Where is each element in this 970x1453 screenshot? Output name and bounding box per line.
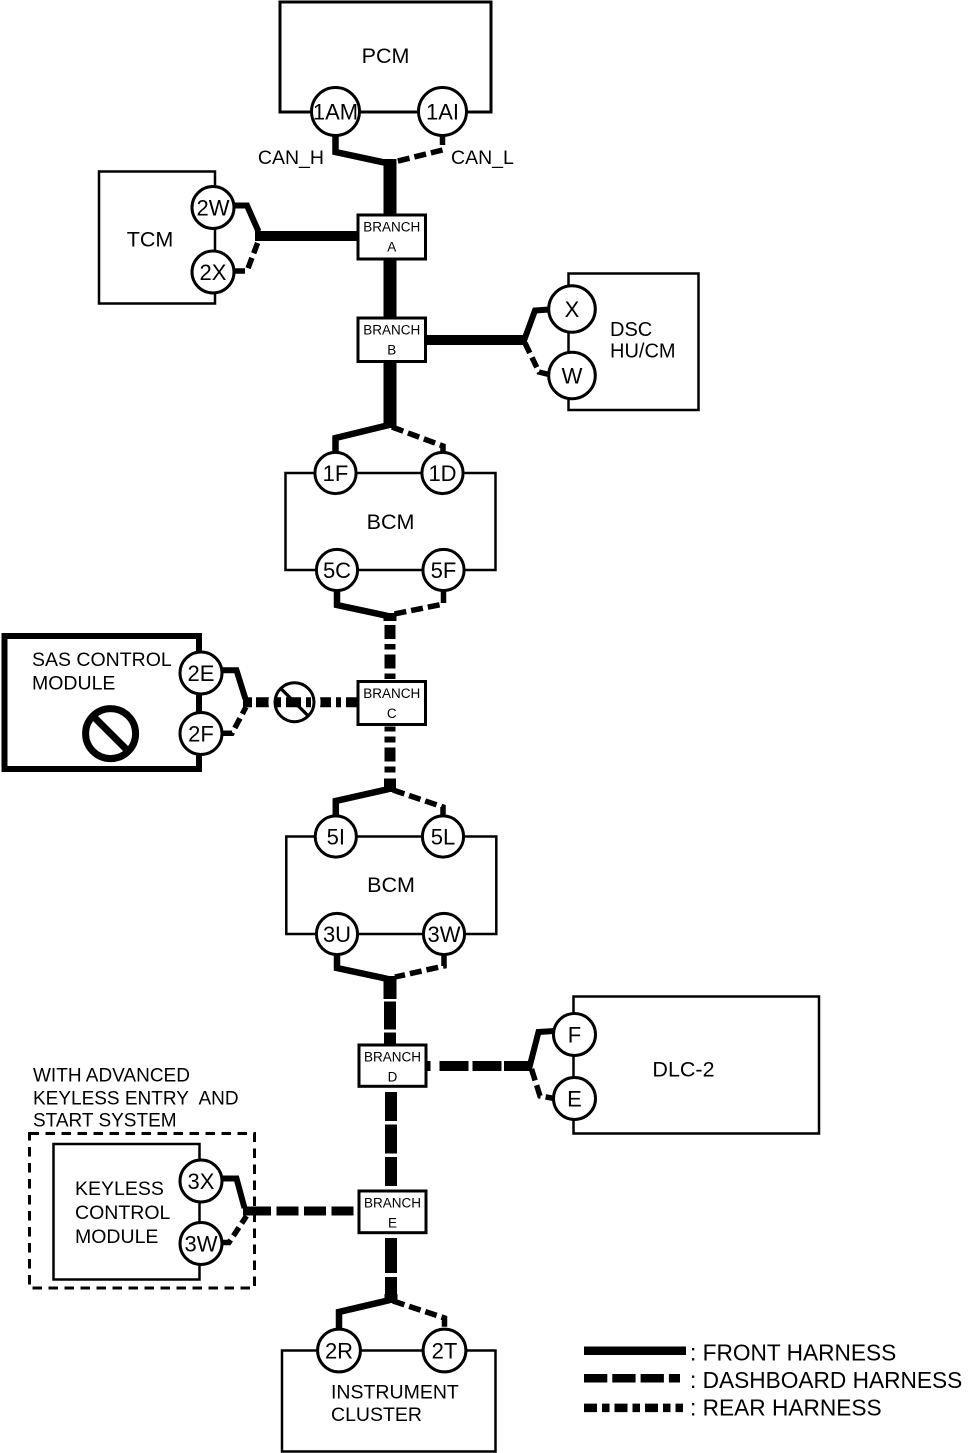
legend rear harness sample <box>584 1404 683 1413</box>
module DSC HU/CM <box>569 274 699 411</box>
wire dashed from 2X to junction <box>234 241 259 272</box>
wire trunk dashboard harness BRANCH D to BRANCH E <box>385 1092 397 1191</box>
module INSTRUMENT CLUSTER <box>282 1351 496 1452</box>
svg-text:MODULE: MODULE <box>32 673 115 695</box>
junction box BRANCH B <box>358 318 426 362</box>
wire trunk front harness PCM junction to BRANCH A <box>384 159 397 217</box>
wire dashed from 3W to trunk junction <box>395 955 444 977</box>
wire dashboard harness run keyless junction to BRANCH E <box>243 1207 249 1216</box>
svg-text:KEYLESS: KEYLESS <box>75 1178 164 1200</box>
wire from 2W to junction <box>234 206 259 232</box>
svg-text:3U: 3U <box>323 922 351 947</box>
wire CAN_H from 1AM to trunk <box>336 133 390 164</box>
dashed option box <box>30 1134 255 1289</box>
module TCM <box>99 172 215 304</box>
svg-text:BRANCH: BRANCH <box>363 323 420 338</box>
prohibition symbol in SAS module <box>86 709 136 759</box>
wire front harness TCM run to BRANCH A <box>255 231 359 241</box>
connector 2R <box>318 1329 361 1372</box>
svg-text:DLC-2: DLC-2 <box>652 1058 714 1082</box>
wire trunk dashboard harness junction to BRANCH D <box>384 976 397 999</box>
svg-text:X: X <box>565 297 580 322</box>
wire front harness BRANCH B run to DSC <box>426 335 528 345</box>
connector 2E <box>180 652 222 694</box>
svg-text:2X: 2X <box>200 260 227 285</box>
svg-text:3W: 3W <box>428 922 461 947</box>
wire from junction to F <box>529 1031 555 1069</box>
wire from 3U to trunk junction <box>337 955 388 979</box>
wire from junction to X <box>524 310 550 343</box>
wire trunk rear harness junction to BRANCH C <box>384 613 397 621</box>
svg-text:BCM: BCM <box>367 873 415 897</box>
svg-text:: FRONT HARNESS: : FRONT HARNESS <box>690 1340 896 1366</box>
wire dashed from junction to E <box>532 1069 555 1099</box>
svg-text:5C: 5C <box>323 558 351 583</box>
svg-text:1D: 1D <box>428 461 456 486</box>
connector 2W <box>192 187 234 229</box>
svg-text:E: E <box>567 1087 582 1112</box>
wire rear harness run SAS junction to BRANCH C <box>243 697 252 707</box>
wire dashed from junction to W <box>525 343 549 375</box>
svg-text:2T: 2T <box>432 1339 458 1364</box>
connector 5I <box>315 816 356 857</box>
wire from 2E to junction <box>222 670 246 699</box>
module BCM upper <box>286 473 496 570</box>
legend dashboard harness sample <box>584 1374 680 1383</box>
junction box BRANCH D <box>359 1045 426 1086</box>
svg-text:3X: 3X <box>188 1169 215 1194</box>
svg-text:: REAR HARNESS: : REAR HARNESS <box>690 1395 882 1421</box>
svg-text:TCM: TCM <box>127 228 174 252</box>
svg-text:INSTRUMENT: INSTRUMENT <box>331 1382 459 1404</box>
wire trunk dashboard harness BRANCH E to cluster junction <box>385 1238 397 1296</box>
module PCM <box>280 2 491 112</box>
legend front harness sample <box>584 1347 686 1356</box>
svg-text:3W: 3W <box>185 1232 218 1257</box>
wire trunk front harness BRANCH B to BCM junction <box>384 361 397 428</box>
svg-text:CAN_L: CAN_L <box>451 147 514 169</box>
junction box BRANCH C <box>358 682 426 725</box>
svg-text:1AM: 1AM <box>313 100 358 125</box>
connector X <box>549 286 596 333</box>
svg-text:F: F <box>568 1023 581 1048</box>
svg-text:W: W <box>562 364 583 389</box>
wire trunk rear harness BRANCH C to BCM junction <box>385 727 396 778</box>
wire from trunk junction to 5I <box>336 789 389 817</box>
svg-text:C: C <box>387 706 397 721</box>
svg-text:DSC: DSC <box>610 319 652 341</box>
wire dashed from trunk junction to 1D <box>392 427 443 454</box>
wire dashed from 5F to trunk junction <box>394 591 444 614</box>
svg-text:2R: 2R <box>325 1339 353 1364</box>
svg-text:SAS CONTROL: SAS CONTROL <box>32 649 172 671</box>
connector E <box>554 1078 596 1120</box>
svg-text:MODULE: MODULE <box>75 1226 158 1248</box>
wire from 3X to junction <box>222 1179 245 1209</box>
svg-text:1AI: 1AI <box>426 100 459 125</box>
svg-text:: DASHBOARD HARNESS: : DASHBOARD HARNESS <box>690 1367 962 1393</box>
svg-text:BRANCH: BRANCH <box>363 220 420 235</box>
connector 2X <box>192 251 234 293</box>
connector 3W lower BCM <box>423 913 464 954</box>
connector 1F <box>315 452 356 493</box>
svg-text:KEYLESS ENTRY AND: KEYLESS ENTRY AND <box>33 1088 239 1109</box>
connector 1AM <box>312 88 360 136</box>
connector 5L <box>422 816 463 857</box>
connector 5C <box>316 549 357 590</box>
wire CAN_L dashed from 1AI to trunk <box>394 133 443 162</box>
svg-text:HU/CM: HU/CM <box>610 341 676 363</box>
connector 2T <box>423 1329 466 1372</box>
wire dashed from 3W keyless to junction <box>222 1216 247 1243</box>
junction box BRANCH E <box>359 1191 426 1233</box>
svg-text:PCM: PCM <box>362 44 410 68</box>
wire dashed from 2F to junction <box>222 707 246 733</box>
svg-text:5F: 5F <box>431 558 457 583</box>
svg-text:D: D <box>388 1070 398 1085</box>
module BCM lower <box>286 837 496 935</box>
module SAS CONTROL MODULE <box>5 636 200 769</box>
wire trunk front harness BRANCH A to BRANCH B <box>384 259 397 320</box>
svg-text:WITH ADVANCED: WITH ADVANCED <box>33 1066 190 1087</box>
svg-text:B: B <box>387 343 396 358</box>
connector 2F <box>180 713 222 755</box>
connector 1D <box>422 452 463 493</box>
connector 3U <box>316 913 357 954</box>
prohibition symbol on rear harness wire <box>271 678 319 726</box>
wire dashboard harness run BRANCH D to DLC-2 <box>425 1061 431 1071</box>
wire from trunk junction to 1F <box>336 425 390 454</box>
svg-text:2F: 2F <box>188 722 214 747</box>
wire dashed from trunk junction to 2T <box>393 1301 445 1330</box>
svg-text:START SYSTEM: START SYSTEM <box>33 1111 177 1132</box>
svg-text:BRANCH: BRANCH <box>364 1050 421 1065</box>
svg-text:BRANCH: BRANCH <box>363 686 420 701</box>
svg-text:CONTROL: CONTROL <box>75 1202 170 1224</box>
svg-text:CAN_H: CAN_H <box>258 147 324 169</box>
connector 1AI <box>419 88 467 136</box>
module DLC-2 <box>574 997 820 1134</box>
connector 5F <box>423 549 464 590</box>
svg-text:5L: 5L <box>431 825 455 850</box>
svg-text:2E: 2E <box>188 661 215 686</box>
connector W <box>549 352 596 399</box>
wire dashed from trunk junction to 5L <box>393 790 443 817</box>
connector 3X <box>180 1160 222 1202</box>
svg-text:1F: 1F <box>323 461 349 486</box>
svg-text:5I: 5I <box>327 825 345 850</box>
wire from trunk junction to 2R <box>339 1300 390 1330</box>
svg-text:A: A <box>387 240 396 255</box>
connector 3W keyless <box>180 1223 222 1265</box>
label WITH ADVANCED KEYLESS ENTRY AND START SYSTEM <box>33 1066 239 1132</box>
wire from 5C to trunk junction <box>337 591 388 616</box>
svg-text:BCM: BCM <box>367 510 415 534</box>
svg-text:2W: 2W <box>197 196 230 221</box>
svg-text:BRANCH: BRANCH <box>364 1196 421 1211</box>
svg-text:E: E <box>388 1216 397 1231</box>
junction box BRANCH A <box>358 215 426 259</box>
svg-text:CLUSTER: CLUSTER <box>331 1404 422 1426</box>
module KEYLESS CONTROL MODULE <box>54 1144 200 1280</box>
connector F <box>554 1014 596 1056</box>
